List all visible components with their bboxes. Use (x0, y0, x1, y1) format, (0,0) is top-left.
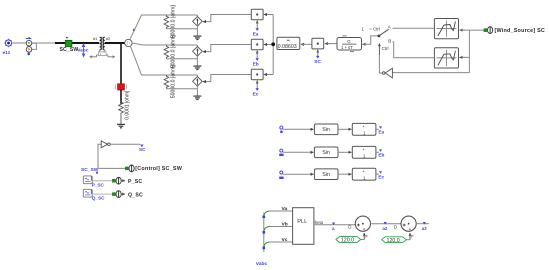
svg-text:Ec: Ec (253, 91, 259, 97)
summer 1 F input (364, 233, 368, 240)
wire gain 1 to label (376, 128, 379, 130)
wire Sin to gain block 2 (338, 151, 351, 153)
limiter 1 input arrow (460, 29, 465, 31)
svg-text:Eb: Eb (378, 152, 384, 157)
limiter 2 input arrow (460, 56, 465, 58)
import tag [Wind_Source] SC (484, 27, 545, 35)
svg-text:Sin: Sin (322, 127, 330, 133)
data label SC (below multiplier) (314, 56, 321, 65)
junction node circle (125, 39, 132, 46)
ground (fault branch) (117, 124, 125, 127)
svg-text:Va: Va (282, 206, 288, 212)
svg-text:[Control] SC_SW: [Control] SC_SW (135, 166, 182, 172)
wire to Sin block 2 (283, 151, 314, 153)
fault block (red) (115, 84, 126, 90)
wire gain 2 to label (376, 151, 379, 153)
data label a2 (on wire) (382, 222, 388, 231)
node marker above P block (96, 172, 98, 174)
gain block 2 (* 1) (352, 146, 376, 158)
breaker SC_SW (green block) (60, 37, 79, 53)
svg-text:Sin: Sin (322, 150, 330, 156)
wire Sin to gain block 3 (338, 173, 351, 175)
data label a (on wire) (332, 223, 335, 232)
svg-text:Vb: Vb (282, 221, 288, 227)
summer 1 input D (348, 225, 355, 230)
output channel P_SC (112, 177, 142, 185)
wire SC_SW node to export tag (98, 167, 125, 169)
svg-text:D: D (348, 225, 351, 230)
wire Vc to PLL (270, 241, 293, 243)
svg-text:theta: theta (314, 220, 324, 225)
PLL output wire (314, 224, 355, 226)
wire resistor B bottom (166, 58, 197, 60)
svg-text:P_SC: P_SC (128, 179, 142, 185)
transformer T1 (93, 36, 110, 50)
wire lag to switch (362, 36, 378, 44)
PLL block (293, 208, 314, 245)
NOT gate 2 (right pointing) (101, 141, 110, 148)
svg-text:= Ctrl: = Ctrl (369, 26, 380, 31)
constant 120.0 (second) (382, 237, 410, 244)
PLL input bus (263, 213, 265, 253)
svg-text:Vabc: Vabc (256, 261, 268, 267)
main bus transformer to junction (105, 42, 125, 44)
svg-text:a2: a2 (382, 226, 388, 231)
ground A (193, 26, 201, 39)
multiplier square C (251, 69, 273, 88)
data label Ec (row C) (253, 88, 259, 97)
data label Eb (sin row 2 output) (378, 149, 384, 157)
wire junction to phase B (132, 43, 197, 45)
wire resistor A bottom (166, 28, 197, 30)
svg-text:Sin: Sin (322, 172, 330, 178)
resistor RC 50000 ohm (164, 65, 177, 99)
wire summer2 out (416, 223, 429, 225)
breakout node c (263, 242, 270, 249)
svg-text:Ea: Ea (378, 129, 384, 134)
svg-text:50000.0 [ohm]: 50000.0 [ohm] (171, 35, 177, 69)
transformer winding config symbol (89, 50, 115, 59)
current source A (diamond) (193, 15, 203, 26)
svg-text:Q_SC: Q_SC (92, 196, 105, 201)
svg-text:50000.0 [ohm]: 50000.0 [ohm] (171, 65, 177, 99)
svg-text:e11: e11 (3, 50, 11, 56)
gain block 3 (* 1) (352, 168, 376, 180)
svg-text:Eb: Eb (253, 61, 259, 67)
gain block 0.08603 (277, 37, 312, 50)
wire bus to NOT gate (392, 72, 469, 74)
data label Ec (sin row 3 output) (378, 171, 384, 179)
wire gain 3 to label (376, 173, 379, 175)
output channel Q_SC (112, 191, 143, 199)
wire P block to pgb (92, 180, 112, 182)
svg-text:[Wind_Source] SC: [Wind_Source] SC (495, 28, 546, 34)
svg-text:Ec: Ec (378, 174, 384, 179)
svg-text:0.0001 [ohm]: 0.0001 [ohm] (125, 90, 131, 120)
ground C (193, 86, 201, 99)
data label a3 (422, 222, 428, 231)
summer 2 input D (394, 224, 401, 230)
svg-text:*: * (363, 148, 365, 153)
wire to Sin block 1 (283, 128, 314, 130)
svg-text:F: F (365, 234, 368, 239)
wire Sin to gain block 1 (338, 128, 351, 130)
summer 2 F input (410, 233, 414, 240)
wire Va to PLL (270, 210, 293, 212)
node e11 (3, 39, 13, 56)
meter (two stacked circles) (26, 37, 37, 55)
svg-text:SC_SW: SC_SW (60, 47, 79, 53)
breakout node b (263, 227, 270, 234)
control hook A (203, 15, 251, 22)
svg-text:50000.0 [ohm]: 50000.0 [ohm] (171, 5, 177, 39)
wire resistor C bottom (166, 88, 197, 90)
resistor RA 50000 ohm (164, 5, 177, 39)
svg-text:P_SC: P_SC (92, 182, 105, 187)
control hook B (203, 45, 251, 52)
wire Vb to PLL (270, 226, 293, 228)
gain bus vertical (272, 15, 274, 75)
svg-text:SC: SC (139, 147, 146, 152)
svg-text:G: G (347, 39, 351, 44)
svg-text:Q_SC: Q_SC (128, 193, 143, 199)
Sin block 3 (314, 169, 338, 180)
multiplier U2 (312, 38, 337, 56)
wire to Sin block 3 (283, 173, 314, 175)
main bus (thick) breaker to transformer (55, 42, 99, 44)
data label Eb (row B) (253, 58, 259, 67)
wire fault to resistor (120, 90, 122, 104)
wire NOT output to switch ctrl (379, 55, 382, 73)
multiplier square A (251, 9, 273, 28)
Sin block 1 (314, 124, 338, 135)
power meter block Q (83, 189, 92, 197)
svg-text:PLL: PLL (297, 219, 307, 225)
svg-text:F: F (411, 234, 414, 239)
wire meter to breaker (32, 42, 57, 44)
NOT gate (left pointing) (382, 68, 392, 78)
svg-text:SC: SC (314, 59, 321, 65)
ground B (193, 56, 201, 69)
selector switch (362, 25, 392, 55)
vertical drop to fault branch (120, 43, 122, 84)
data label SC (after NOT2) (139, 145, 146, 153)
wire node to meter (12, 42, 27, 44)
svg-text:Ctrl: Ctrl (382, 46, 389, 51)
summer 2 (401, 216, 416, 231)
lag block G/(1+sT) (337, 36, 365, 52)
summer 1 (355, 216, 370, 231)
svg-text:120.0: 120.0 (387, 238, 400, 244)
svg-text:B: B (388, 39, 391, 44)
wire resistor to ground (120, 115, 122, 125)
svg-text:*: * (363, 125, 365, 130)
svg-text:120.0: 120.0 (341, 238, 354, 244)
data label a3 (sin row 3 input) (279, 171, 283, 179)
svg-text:D: D (394, 225, 397, 230)
svg-text:Ea: Ea (253, 31, 259, 37)
svg-text:a3: a3 (422, 226, 428, 231)
wire junction to phase A (diagonal) (130, 15, 198, 40)
data label Ea (sin row 1 output) (378, 126, 384, 134)
export tag [Control] SC_SW (125, 165, 182, 172)
right bus from import tag (462, 30, 484, 73)
bus junction dot (271, 42, 275, 46)
constant 120.0 (first) (336, 237, 364, 244)
multiplier square B (251, 39, 273, 58)
wire summer1 to summer2 (371, 223, 402, 225)
wire switch B to limiter 2 (393, 42, 435, 58)
data label Ea (row A) (253, 28, 259, 37)
Sin block 2 (314, 147, 338, 158)
resistor 0.0001 ohm (119, 90, 131, 120)
wire Q block to pgb (92, 193, 112, 195)
control hook C (203, 75, 251, 82)
data label a (sin row 1 input) (280, 126, 283, 133)
wire NOT2 to SC label (110, 143, 140, 145)
wire SC_SW node up to NOT2 (98, 144, 101, 168)
current source B (diamond) (193, 45, 203, 56)
node marker dot (133, 29, 135, 31)
svg-text:*: * (363, 170, 365, 175)
svg-text:0.08603: 0.08603 (278, 44, 297, 50)
limiter block 1 (434, 19, 458, 39)
power meter block P (83, 176, 92, 184)
data label a2 (sin row 2 input) (279, 149, 283, 156)
svg-text:1 + sT: 1 + sT (341, 45, 353, 50)
wire junction to phase C (diagonal) (130, 46, 197, 75)
limiter block 2 (434, 48, 458, 68)
svg-text:#1: #1 (93, 36, 97, 41)
svg-text:Vabc: Vabc (77, 48, 89, 54)
current source C (diamond) (193, 75, 203, 86)
gain block 1 (* 1) (352, 123, 376, 135)
svg-text:#2: #2 (106, 36, 110, 41)
voltmeter probe Vabc (77, 44, 89, 57)
breakout node a (263, 211, 270, 218)
svg-text:Vc: Vc (282, 237, 288, 243)
resistor RB 50000 ohm (164, 35, 177, 69)
wire switch A to limiter 1 (393, 27, 435, 29)
